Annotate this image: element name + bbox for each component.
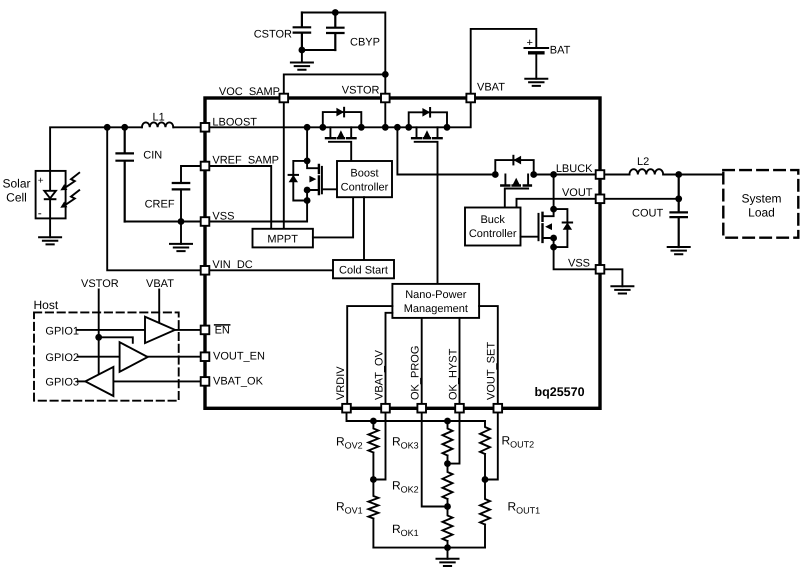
wire LBUCK pin to L2 — [604, 174, 629, 176]
ground right VSS — [611, 286, 633, 293]
inductor L1 — [142, 122, 173, 127]
svg-text:VRDIV: VRDIV — [335, 366, 347, 400]
node VIN_DC branch — [104, 124, 111, 131]
svg-text:ROK1: ROK1 — [392, 522, 419, 538]
wire VOUT to buck controller — [517, 199, 596, 208]
svg-text:bq25570: bq25570 — [535, 385, 585, 399]
IC bq25570 outline — [205, 98, 600, 408]
inductor L2 — [629, 169, 663, 174]
resistor ROK3 — [443, 421, 453, 464]
node buck NMOS bottom — [550, 244, 557, 251]
svg-text:VBAT_OV: VBAT_OV — [373, 349, 385, 400]
svg-text:VSTOR: VSTOR — [81, 278, 119, 290]
node switch left — [405, 124, 412, 131]
svg-text:+: + — [38, 176, 44, 187]
svg-text:L2: L2 — [637, 156, 649, 168]
pin VOC_SAMP — [280, 94, 289, 103]
pin VSTOR — [381, 94, 390, 103]
wire CSTOR-CBYP bottom link — [302, 49, 335, 51]
transistor boost high-side switch — [323, 108, 362, 161]
svg-text:System: System — [741, 192, 781, 206]
svg-text:ROUT2: ROUT2 — [502, 434, 535, 450]
wire boost controller to cold start — [363, 197, 365, 260]
node ROV2 top — [370, 418, 377, 425]
node buck feed branch — [394, 124, 401, 131]
ground below COUT — [668, 247, 690, 254]
wire VOUT_EN output — [148, 356, 201, 358]
host dashed box — [34, 312, 179, 400]
pin VOUT_SET — [494, 404, 503, 413]
node boost NMOS source — [304, 187, 311, 194]
capacitor CREF — [173, 183, 189, 222]
svg-text:-: - — [38, 206, 42, 220]
wire VRDIV from nano-power — [347, 306, 392, 404]
wire VSTOR host rail — [98, 290, 100, 375]
ground below CREF — [170, 222, 192, 252]
svg-text:GPIO1: GPIO1 — [45, 325, 79, 337]
wire LBOOST down to boost NMOS — [306, 127, 308, 161]
node ROV junction — [370, 476, 377, 483]
wire MPPT to boost controller — [313, 197, 353, 237]
node bottom rail ground — [444, 544, 451, 551]
buffer EN driver — [145, 317, 175, 343]
svg-text:L1: L1 — [153, 112, 165, 124]
block Boost Controller — [337, 161, 392, 197]
wire VBAT host rail — [158, 290, 160, 324]
wire VSTOR branch to buffer2 — [99, 337, 133, 343]
block System Load dashed — [723, 170, 798, 238]
svg-text:VBAT_OK: VBAT_OK — [213, 375, 264, 387]
wire VBAT pin to battery — [471, 29, 537, 93]
resistor ROK1 — [443, 507, 453, 548]
transistor boost low-side NMOS — [289, 161, 337, 201]
node buck NMOS top — [550, 206, 557, 213]
wire VOUT pin to COUT node — [604, 198, 678, 200]
node buck NMOS source — [550, 235, 557, 242]
svg-text:VOC_SAMP: VOC_SAMP — [219, 86, 280, 98]
svg-text:Host: Host — [34, 298, 59, 312]
svg-text:Cold Start: Cold Start — [339, 264, 388, 276]
wire VBAT_OK input — [113, 380, 200, 382]
wire L1 right lead to LBOOST pin — [173, 126, 200, 128]
wire VSTOR pin stub — [384, 103, 386, 127]
svg-text:CSTOR: CSTOR — [254, 29, 292, 41]
wire VIN_DC to cold start — [201, 269, 333, 271]
svg-text:VBAT: VBAT — [477, 82, 505, 94]
light arrow 2 — [60, 190, 79, 208]
buffer VOUT_EN driver — [120, 342, 148, 372]
pin VBAT_OK — [201, 377, 210, 386]
wire VSS right pin to ground — [604, 269, 622, 286]
wire CSTOR/CBYP top rail to VSTOR riser — [302, 13, 385, 94]
resistor ROV1 — [368, 480, 378, 548]
svg-text:Nano-Power: Nano-Power — [405, 289, 466, 301]
transistor buck low-side NMOS — [521, 209, 573, 247]
node boost NMOS bottom — [304, 197, 311, 204]
wire OK_HYST to ROK junction — [448, 404, 460, 464]
buffer VBAT_OK receiver — [85, 367, 113, 396]
block Nano-Power Management — [392, 284, 479, 318]
ground bottom rail — [437, 548, 459, 566]
block MPPT — [253, 229, 313, 248]
node VSTOR host branch — [95, 334, 102, 341]
wire OK_HYST from nano-power — [459, 318, 461, 404]
svg-text:VREF_SAMP: VREF_SAMP — [212, 155, 279, 167]
svg-text:GPIO2: GPIO2 — [45, 352, 79, 364]
node CBYP top junction — [332, 9, 339, 16]
pin VOUT — [596, 195, 605, 204]
wire buck NMOS drain from LBUCK — [553, 175, 555, 210]
pin VBAT — [466, 94, 475, 103]
pin VSS — [201, 217, 210, 226]
svg-text:MPPT: MPPT — [267, 233, 298, 245]
wire GPIO1 input — [78, 329, 146, 331]
svg-text:VOUT_SET: VOUT_SET — [486, 342, 498, 400]
wire buck NMOS to VSS right pin — [554, 247, 596, 269]
pin VIN_DC — [201, 266, 210, 275]
node boost NMOS top — [304, 158, 311, 165]
pin OK_HYST — [455, 404, 464, 413]
pin VOUT_EN — [201, 352, 210, 361]
transistor VSTOR-VBAT switch — [409, 108, 447, 284]
node ROUT junction — [482, 476, 489, 483]
wire VBAT_OV from nano-power — [386, 313, 393, 404]
wire EN output — [175, 329, 201, 331]
pin LBOOST — [201, 123, 210, 132]
wire OK_PROG from nano-power — [421, 318, 423, 404]
svg-text:COUT: COUT — [632, 208, 663, 220]
wire VIN_DC branch down and to pin — [107, 127, 201, 270]
svg-text:Controller: Controller — [469, 228, 517, 240]
pin VREF_SAMP — [201, 162, 210, 171]
pin VRDIV — [342, 404, 351, 413]
wire through solar cell — [49, 171, 51, 219]
ground below solar cell — [39, 218, 61, 244]
svg-text:OK_HYST: OK_HYST — [447, 348, 459, 400]
svg-text:VSS: VSS — [568, 258, 590, 270]
svg-text:ROV1: ROV1 — [336, 500, 363, 516]
svg-text:CBYP: CBYP — [350, 37, 380, 49]
wire OK_PROG to ROK junction — [422, 404, 448, 507]
svg-text:ROK3: ROK3 — [392, 435, 419, 451]
node switch right — [444, 124, 451, 131]
svg-text:Buck: Buck — [480, 214, 505, 226]
node ROK2-ROK1 junction — [444, 503, 451, 510]
wire VOC_SAMP riser — [284, 74, 386, 93]
photodiode in solar cell — [44, 191, 56, 199]
svg-text:VIN_DC: VIN_DC — [212, 259, 252, 271]
wire VOUT_SET to ROUT junction — [485, 404, 498, 480]
solar cell box — [36, 171, 66, 219]
svg-text:OK_PROG: OK_PROG — [410, 346, 422, 400]
svg-text:ROUT1: ROUT1 — [508, 500, 541, 516]
pin LBUCK — [596, 170, 605, 179]
node VSTOR riser junction — [382, 71, 389, 78]
resistor ROUT1 — [480, 480, 490, 548]
svg-text:Cell: Cell — [6, 191, 27, 205]
wire VBAT_OV to ROV junction — [373, 404, 385, 480]
node CREF bottom junction — [178, 218, 185, 225]
label EN with overline — [215, 324, 230, 336]
pin EN — [201, 326, 210, 335]
wire resistor bottom rail — [373, 547, 485, 549]
svg-text:Solar: Solar — [2, 177, 30, 191]
svg-text:ROV2: ROV2 — [336, 435, 363, 451]
wire LBUCK rail to pin — [534, 174, 596, 176]
wire VREF_SAMP to CREF — [181, 166, 201, 183]
svg-text:Boost: Boost — [350, 167, 378, 179]
capacitor CBYP — [327, 13, 343, 51]
node CIN branch — [121, 124, 128, 131]
wire VREF_SAMP to MPPT — [201, 166, 272, 229]
block Cold Start — [333, 260, 394, 278]
svg-text:Controller: Controller — [341, 181, 389, 193]
node buck NMOS branch — [550, 171, 557, 178]
node CSTOR bottom junction — [299, 47, 306, 54]
block Buck Controller — [465, 208, 521, 246]
wire solar cell to LBOOST rail — [50, 127, 142, 171]
node boost HS left — [319, 124, 326, 131]
node VOUT-COUT — [675, 195, 682, 202]
svg-text:VOUT: VOUT — [562, 187, 593, 199]
wire VOC_SAMP down to MPPT — [283, 103, 285, 229]
battery BAT — [525, 48, 549, 79]
svg-text:VSS: VSS — [212, 210, 234, 222]
node ROK3 top — [444, 418, 451, 425]
ground below BAT — [525, 79, 547, 86]
svg-text:VOUT_EN: VOUT_EN — [213, 351, 265, 363]
svg-text:EN: EN — [215, 324, 230, 336]
resistor ROK2 — [443, 464, 453, 507]
wire VRDIV rail — [347, 404, 486, 421]
capacitor CIN — [117, 127, 133, 221]
svg-text:ROK2: ROK2 — [392, 479, 419, 495]
wire LBOOST/VSTOR/VBAT horizontal rail — [201, 103, 471, 127]
svg-text:CREF: CREF — [145, 199, 175, 211]
svg-text:CIN: CIN — [143, 150, 162, 162]
node L2 output — [675, 171, 682, 178]
node buck HS right — [530, 171, 537, 178]
node boost NMOS rail junction — [304, 124, 311, 131]
svg-text:LBOOST: LBOOST — [212, 116, 257, 128]
node buck HS left — [492, 171, 499, 178]
wire L2 to system load — [663, 174, 723, 176]
node VSTOR stub junction — [382, 124, 389, 131]
svg-text:Load: Load — [748, 206, 775, 220]
pin OK_PROG — [417, 404, 426, 413]
node boost HS right — [358, 124, 365, 131]
wire VOUT_SET from nano-power — [479, 306, 498, 404]
ground below CSTOR — [291, 50, 313, 70]
svg-text:+: + — [527, 37, 533, 49]
svg-text:GPIO3: GPIO3 — [45, 377, 79, 389]
capacitor CSTOR — [294, 13, 310, 51]
light arrow 1 — [60, 173, 79, 191]
svg-text:VBAT: VBAT — [146, 278, 174, 290]
wire boost NMOS to VSS pin — [201, 201, 307, 222]
svg-text:LBUCK: LBUCK — [556, 163, 593, 175]
transistor buck high-side switch — [495, 156, 533, 208]
capacitor COUT — [671, 175, 687, 248]
wire GPIO3 output — [78, 380, 86, 382]
svg-text:Management: Management — [404, 303, 468, 315]
resistor ROV2 — [368, 421, 378, 480]
svg-text:BAT: BAT — [550, 45, 571, 57]
pin VBAT_OV — [381, 404, 390, 413]
node ROK3-ROK2 junction — [444, 460, 451, 467]
pin VSS2 — [596, 265, 605, 274]
wire buck feed down to LBUCK rail — [397, 127, 495, 174]
resistor ROUT2 — [480, 421, 490, 480]
wire GPIO2 input — [78, 356, 120, 358]
svg-text:VSTOR: VSTOR — [342, 85, 380, 97]
wire VSS left rail — [125, 221, 201, 223]
